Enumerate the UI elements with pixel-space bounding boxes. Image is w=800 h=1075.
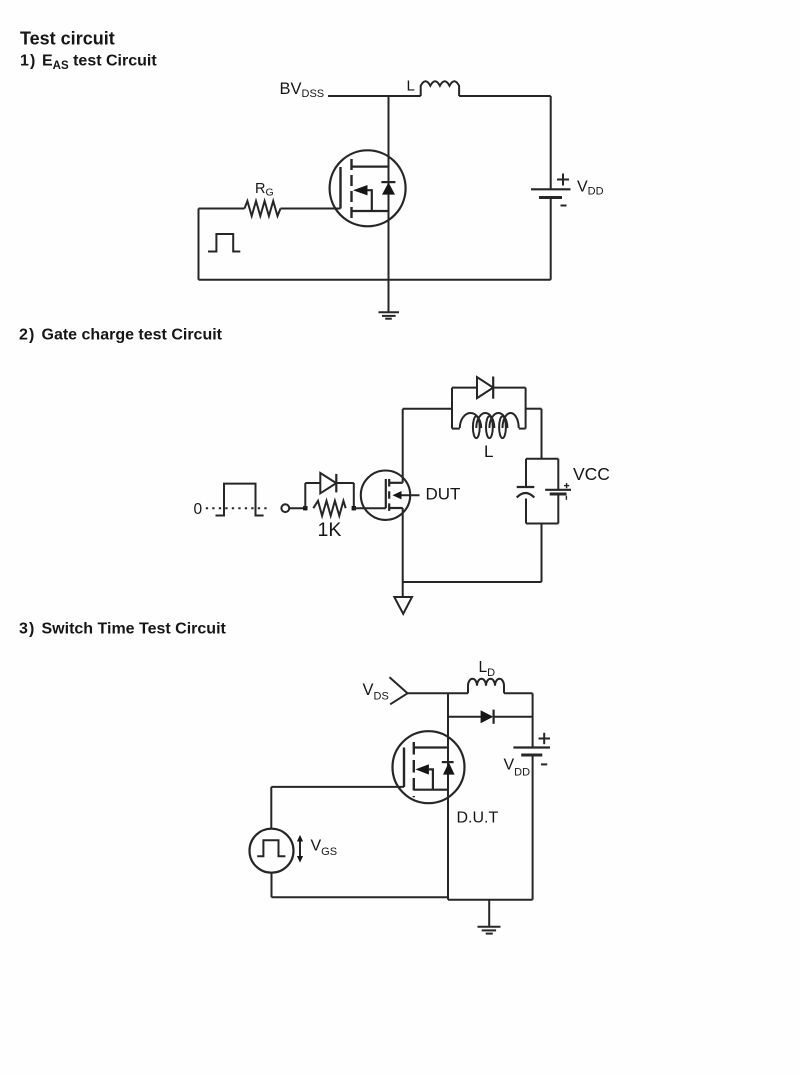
svg-text:D.U.T: D.U.T (457, 810, 499, 827)
label VGS (311, 838, 338, 859)
svg-text:RG: RG (255, 181, 274, 199)
wire: right stub (353, 483, 355, 508)
Q3 gate bar (403, 748, 405, 788)
label DUT (426, 485, 461, 504)
MOSFET Q1 circle (330, 150, 406, 226)
label + (VDD3) (539, 733, 551, 744)
battery minus tick (565, 496, 567, 500)
label RG (255, 181, 274, 199)
wire: bottom rail (199, 279, 551, 281)
wire: input to node (289, 507, 305, 509)
Q3 channel bar (413, 742, 415, 797)
svg-text:VDD: VDD (504, 757, 531, 779)
wire: left drop (198, 209, 200, 280)
svg-text:Test circuit: Test circuit (20, 29, 115, 49)
svg-text:VDS: VDS (363, 681, 389, 703)
Q3 source tie (414, 789, 447, 791)
Q1 body diode (381, 182, 395, 195)
MOSFET Q2 circle (361, 471, 410, 520)
Q3 body diode (442, 762, 455, 775)
wire: gate lead 3 (271, 786, 404, 788)
diode D2 anode wire (305, 482, 320, 484)
ground G3 (478, 927, 501, 934)
wire: bottom rail 3 right (448, 899, 533, 901)
wire: bottom rail 2 (403, 581, 542, 583)
wire: right rail (550, 96, 552, 189)
label D.U.T (457, 810, 499, 827)
inductor LD (468, 679, 504, 694)
VCC box left + capacitor (517, 459, 535, 524)
Q2 drain tie (389, 482, 403, 484)
Q1 drain tie (352, 166, 389, 168)
ground arrow 2 (394, 597, 412, 614)
Q3 body arrow (415, 764, 433, 790)
wire: top rail right (459, 95, 551, 97)
svg-text:1K: 1K (318, 519, 342, 541)
heading: 1) EAS test Circuit (20, 53, 157, 73)
svg-text:VDD: VDD (577, 179, 604, 198)
Q1 channel bar (350, 159, 352, 218)
wire: mid link right (526, 408, 542, 410)
wire: gate lead 2 (354, 507, 386, 509)
wire: bottom rail 3 left (272, 896, 449, 898)
wire: source drop 2 (402, 508, 404, 597)
label - (VDD1) (561, 205, 567, 207)
battery VDD1 (531, 189, 571, 279)
battery plus small (564, 483, 569, 488)
label 1K (318, 519, 342, 541)
label L2 (484, 442, 493, 461)
ground G1 (379, 312, 400, 318)
svg-text:LD: LD (479, 659, 496, 679)
MOSFET Q3 circle (393, 731, 465, 803)
ground stub 3 (488, 900, 490, 927)
input terminal circle (281, 504, 289, 512)
Q2 channel bar (388, 479, 390, 511)
wire: left stub (304, 483, 306, 508)
wire: left stub of parallel pair (451, 388, 453, 429)
Q1 source tie (352, 210, 389, 212)
resistor R 1K (313, 501, 345, 516)
Q2 source tie (389, 507, 403, 509)
pulse source PG circle (250, 829, 294, 873)
probe chevron (390, 677, 408, 704)
label BVDSS (280, 80, 325, 100)
diode D4 (481, 710, 494, 724)
wire: drain riser (402, 409, 404, 483)
resistor RG (245, 201, 281, 216)
svg-text:L: L (407, 78, 415, 95)
battery VDD3 (513, 748, 550, 900)
wire: right rail 3 upper (532, 693, 534, 747)
dotted baseline (206, 507, 267, 509)
label LD (479, 659, 496, 679)
svg-text:L: L (484, 442, 493, 461)
diode D2 (320, 473, 354, 493)
diode row wire right (494, 716, 533, 718)
wire: vcc riser (541, 409, 543, 459)
VCC box bottom (526, 523, 558, 525)
junction dot right (352, 506, 356, 510)
label VDD3 (504, 757, 531, 779)
svg-text:1)EAS test Circuit: 1)EAS test Circuit (20, 53, 157, 73)
svg-text:3)Switch Time Test Circuit: 3)Switch Time Test Circuit (19, 621, 227, 638)
VGS double arrow (297, 835, 303, 863)
VCC box right + battery (545, 459, 571, 524)
inductor L1 (421, 81, 459, 96)
wire: top rail 3 left (408, 692, 469, 694)
pulse symbol 1 (208, 234, 240, 252)
label + (VDD1) (557, 174, 569, 186)
inductor L2 (452, 413, 526, 438)
label L1 (407, 78, 415, 95)
svg-text:DUT: DUT (426, 485, 461, 504)
label VDS (363, 681, 389, 703)
diode row wire left (448, 716, 481, 718)
VCC box top (526, 458, 558, 460)
svg-text:VGS: VGS (311, 838, 338, 859)
pulse symbol 2 (216, 484, 264, 516)
wire: vcc bottom drop (541, 524, 543, 583)
wire: right stub of pair (525, 388, 527, 429)
Q2 arrow + DUT pointer (393, 491, 420, 499)
Q3 drain tie (414, 746, 447, 748)
wire: input left (199, 208, 245, 210)
wire: source bottom drop 3 (271, 873, 273, 898)
svg-text:BVDSS: BVDSS (280, 80, 325, 100)
wire: drain-source vertical Q3 (447, 693, 449, 899)
Q1 body arrow (353, 185, 372, 211)
wire: gate lead (281, 208, 341, 210)
label 0 (194, 501, 203, 518)
diode D3 (452, 377, 526, 399)
Q1 gate bar (339, 167, 341, 209)
svg-text:2)Gate charge test Circuit: 2)Gate charge test Circuit (19, 327, 223, 344)
wire: left drop 3 (270, 787, 272, 829)
wire: top link (403, 408, 452, 410)
label VCC (573, 464, 610, 484)
label - (VDD3) (541, 763, 547, 765)
wire: top rail left (328, 95, 421, 97)
wire: drain-source vertical Q1 (388, 96, 390, 312)
pulse glyph 3 (257, 840, 285, 856)
Q2 gate bar (385, 479, 387, 508)
svg-text:VCC: VCC (573, 464, 610, 484)
junction dot left (303, 506, 307, 510)
wire: top rail 3 right (504, 692, 533, 694)
svg-text:0: 0 (194, 501, 203, 518)
label VDD1 (577, 179, 604, 198)
